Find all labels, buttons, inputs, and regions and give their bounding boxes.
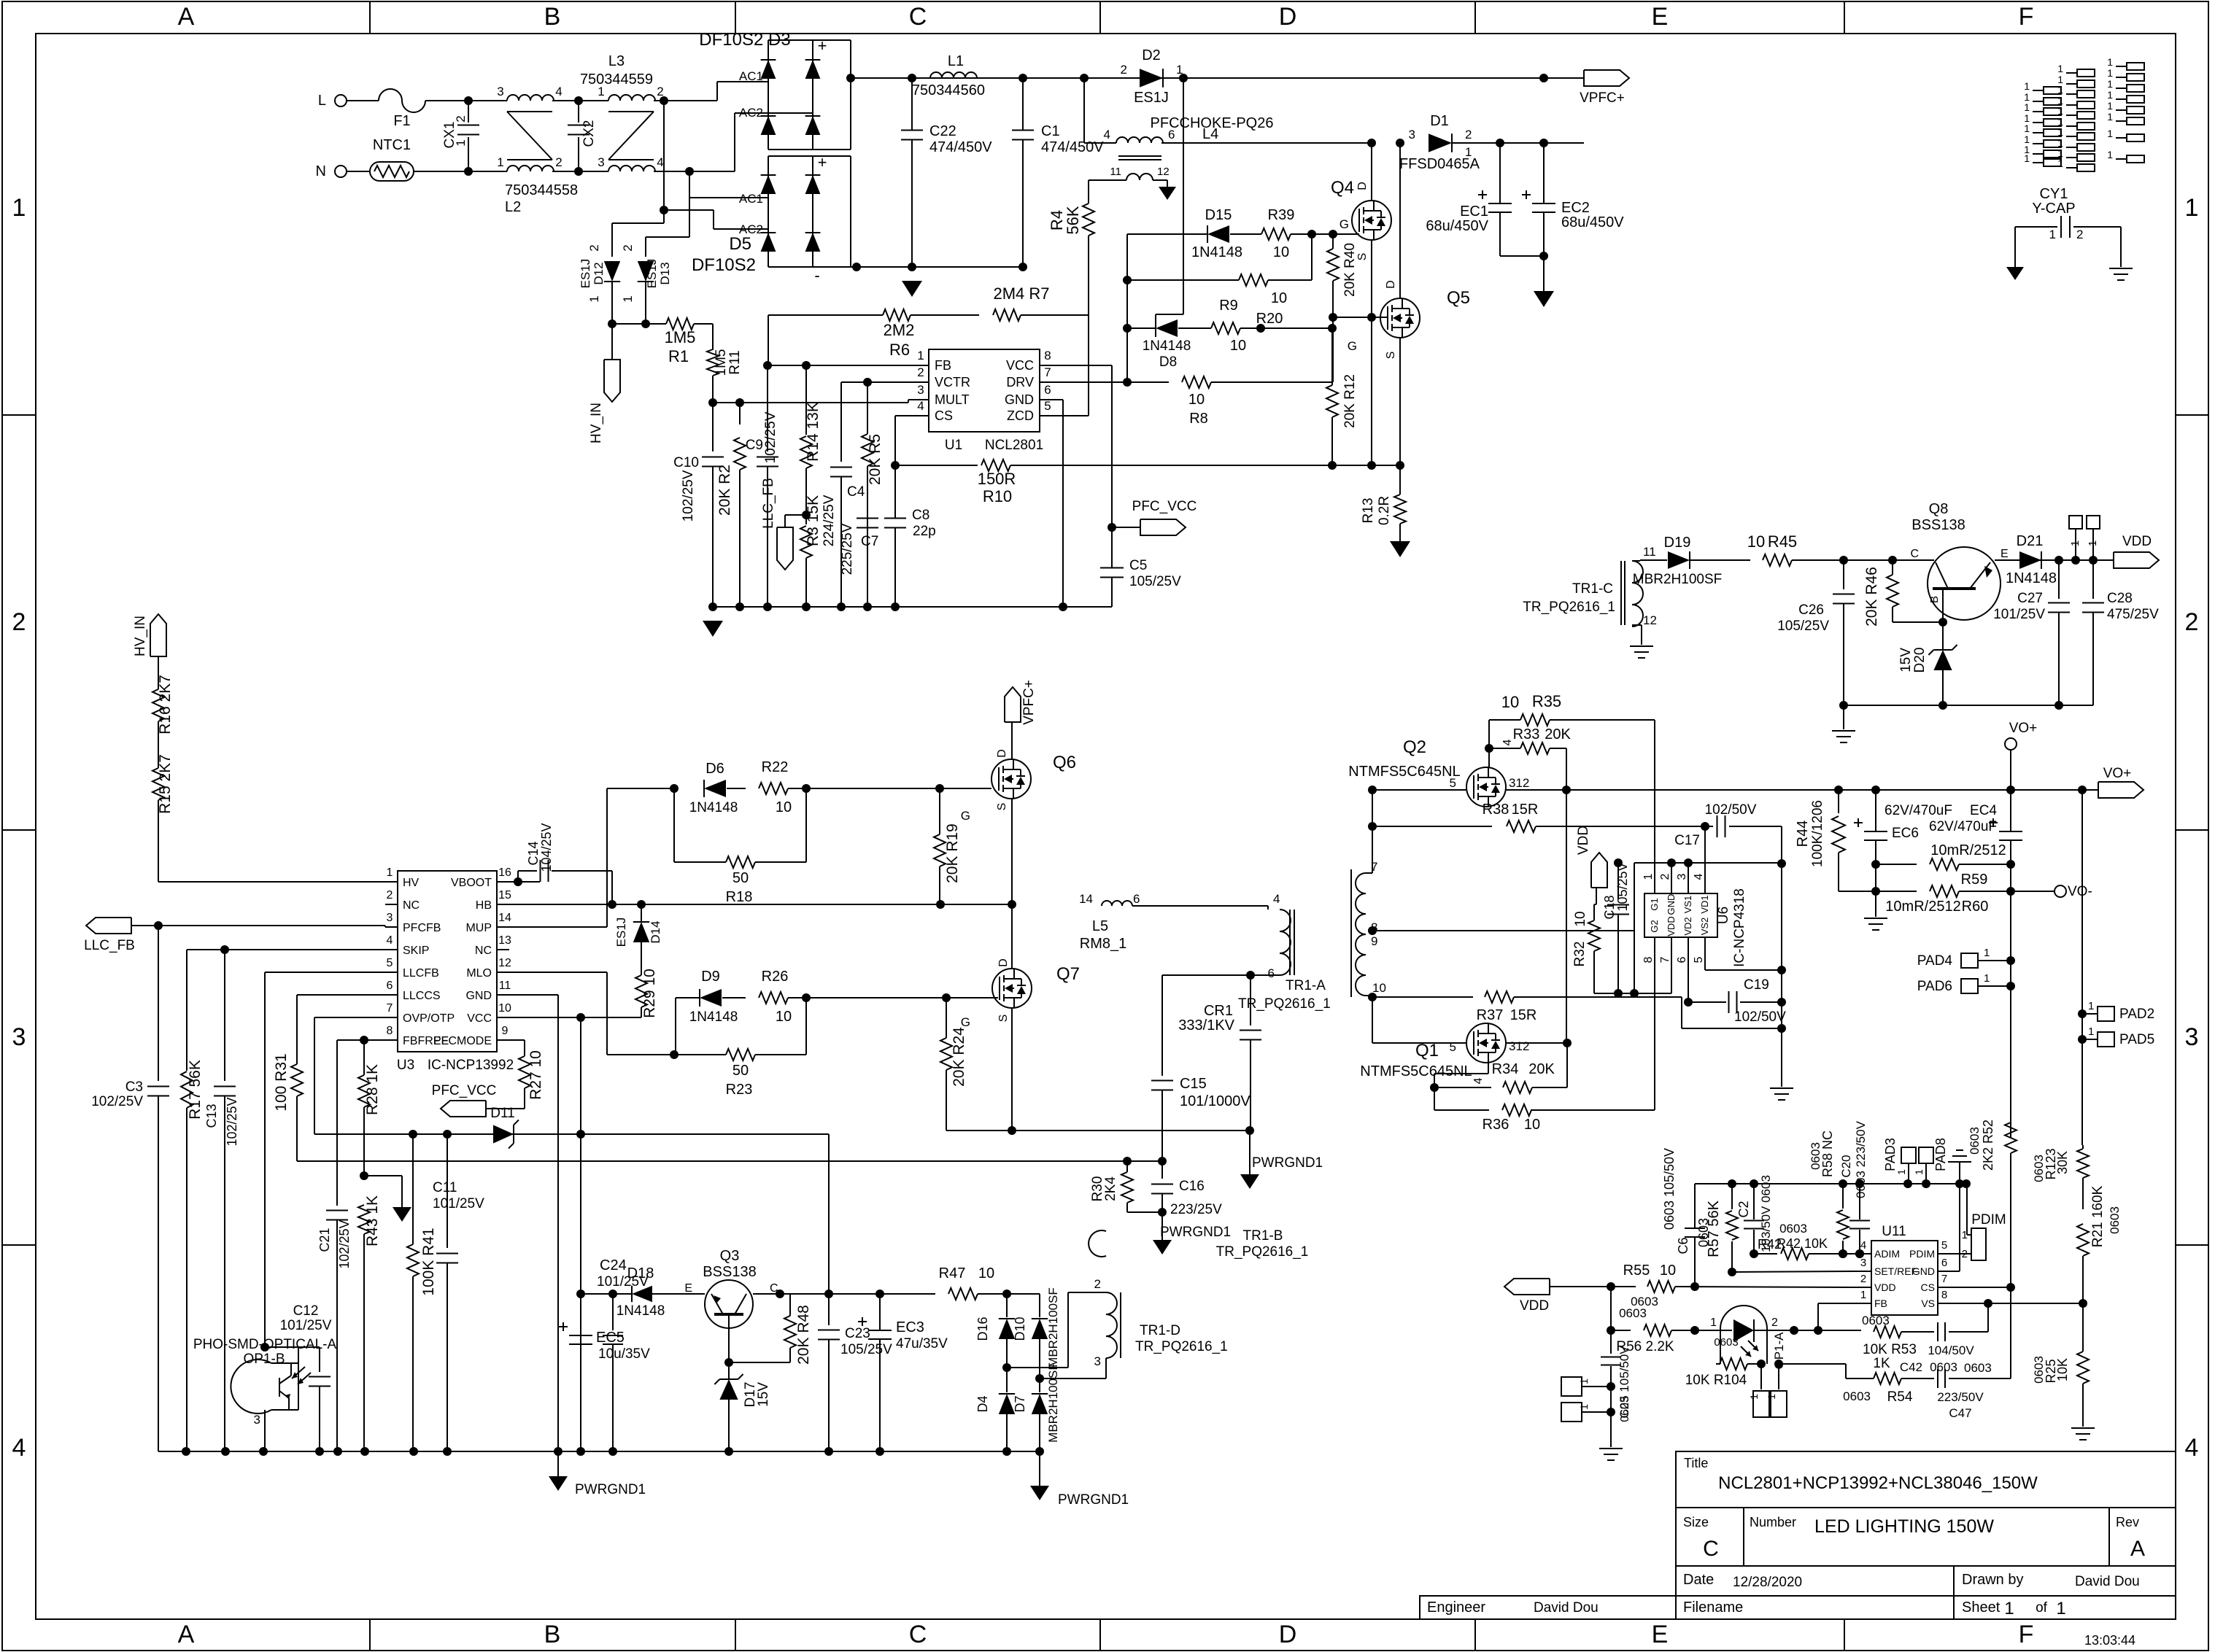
svg-text:B: B xyxy=(544,1621,561,1648)
svg-text:1: 1 xyxy=(1578,1404,1590,1410)
svg-text:CY1: CY1 xyxy=(2040,186,2068,202)
svg-text:R37: R37 xyxy=(1477,1007,1504,1023)
svg-text:1: 1 xyxy=(2057,158,2063,169)
svg-text:R33: R33 xyxy=(1513,726,1540,742)
svg-text:TR1-D: TR1-D xyxy=(1140,1323,1180,1338)
svg-text:2: 2 xyxy=(2185,608,2199,636)
svg-text:EC5: EC5 xyxy=(596,1330,625,1346)
svg-text:15R: 15R xyxy=(1512,802,1539,818)
svg-text:6: 6 xyxy=(1268,966,1275,980)
svg-text:R23: R23 xyxy=(726,1082,753,1098)
svg-text:VO+: VO+ xyxy=(2103,766,2132,781)
svg-text:CS: CS xyxy=(935,408,953,423)
svg-text:56K: 56K xyxy=(1064,206,1082,234)
svg-text:4: 4 xyxy=(1104,128,1110,141)
svg-text:Filename: Filename xyxy=(1683,1599,1743,1616)
svg-text:R57 56K: R57 56K xyxy=(1706,1200,1722,1257)
svg-text:15R: 15R xyxy=(1510,1007,1537,1023)
svg-text:HB: HB xyxy=(476,899,492,912)
svg-text:6: 6 xyxy=(1044,383,1051,397)
svg-text:20K R2: 20K R2 xyxy=(716,465,733,516)
svg-text:4: 4 xyxy=(1693,873,1705,880)
svg-text:1: 1 xyxy=(1984,947,1990,959)
svg-text:1: 1 xyxy=(1578,1378,1590,1384)
svg-text:15V: 15V xyxy=(1898,648,1914,672)
svg-text:2M2: 2M2 xyxy=(884,321,915,339)
svg-text:1: 1 xyxy=(2107,78,2113,90)
svg-text:R42 10K: R42 10K xyxy=(1777,1236,1828,1251)
svg-text:VBOOT: VBOOT xyxy=(451,877,492,889)
svg-text:F1: F1 xyxy=(393,113,410,129)
svg-text:11: 11 xyxy=(1110,166,1121,178)
svg-text:0603: 0603 xyxy=(2108,1206,2122,1234)
svg-text:TR_PQ2616_1: TR_PQ2616_1 xyxy=(1135,1339,1228,1354)
svg-text:R58 NC: R58 NC xyxy=(1820,1131,1835,1177)
svg-text:R14 13K: R14 13K xyxy=(805,402,822,462)
svg-text:3: 3 xyxy=(1860,1257,1866,1269)
svg-text:D19: D19 xyxy=(1664,535,1691,551)
svg-text:G2: G2 xyxy=(1649,920,1660,932)
svg-text:3: 3 xyxy=(2185,1023,2199,1051)
svg-text:C21: C21 xyxy=(317,1228,332,1252)
svg-text:1: 1 xyxy=(2107,100,2113,112)
svg-text:R13: R13 xyxy=(1361,498,1376,524)
svg-text:C23: C23 xyxy=(845,1326,870,1341)
svg-text:PAD4: PAD4 xyxy=(1917,953,1953,969)
svg-text:NC: NC xyxy=(475,945,492,957)
svg-text:ES1J: ES1J xyxy=(579,259,592,289)
svg-text:+: + xyxy=(818,153,827,171)
svg-text:5: 5 xyxy=(1044,399,1051,413)
svg-text:22p: 22p xyxy=(913,524,936,539)
svg-text:A: A xyxy=(2130,1537,2145,1561)
svg-text:C19: C19 xyxy=(1744,977,1769,993)
svg-text:10: 10 xyxy=(1271,290,1287,306)
svg-text:20K R40: 20K R40 xyxy=(1342,243,1358,297)
svg-text:R3 15K: R3 15K xyxy=(805,495,822,546)
svg-text:-: - xyxy=(814,266,819,284)
svg-text:R59: R59 xyxy=(1961,872,1988,888)
svg-text:2: 2 xyxy=(587,244,601,251)
svg-text:A: A xyxy=(178,3,195,31)
svg-text:474/450V: 474/450V xyxy=(1041,139,1104,155)
svg-text:MBR2H100SF: MBR2H100SF xyxy=(1046,1362,1060,1443)
svg-text:3: 3 xyxy=(12,1023,26,1051)
svg-text:7: 7 xyxy=(1044,365,1051,379)
svg-text:10K R53: 10K R53 xyxy=(1863,1342,1917,1357)
svg-text:R47: R47 xyxy=(939,1265,966,1281)
svg-text:105/25V: 105/25V xyxy=(1129,574,1181,589)
svg-text:AC1: AC1 xyxy=(739,192,763,206)
svg-text:R35: R35 xyxy=(1532,692,1561,710)
svg-text:13: 13 xyxy=(498,934,511,947)
svg-text:1: 1 xyxy=(2107,67,2113,79)
svg-text:ES1J: ES1J xyxy=(614,918,628,947)
svg-text:CX2: CX2 xyxy=(581,120,597,147)
svg-text:1: 1 xyxy=(1984,972,1990,985)
svg-text:NCL2801+NCP13992+NCL38046_150W: NCL2801+NCP13992+NCL38046_150W xyxy=(1718,1473,2038,1493)
svg-text:D: D xyxy=(997,958,1010,967)
svg-text:D15: D15 xyxy=(1205,207,1232,223)
svg-text:Q3: Q3 xyxy=(720,1248,740,1264)
svg-text:1: 1 xyxy=(2088,1000,2094,1012)
svg-text:B: B xyxy=(544,3,561,31)
svg-text:10: 10 xyxy=(1230,338,1246,354)
svg-text:D: D xyxy=(996,749,1008,758)
svg-text:VCTR: VCTR xyxy=(935,375,970,389)
svg-text:PAD8: PAD8 xyxy=(1933,1138,1948,1171)
svg-text:HV_IN: HV_IN xyxy=(589,403,604,443)
svg-text:PAD2: PAD2 xyxy=(2119,1007,2154,1022)
svg-text:104/50V: 104/50V xyxy=(1928,1343,1974,1357)
svg-text:101/1000V: 101/1000V xyxy=(1180,1093,1250,1109)
svg-text:D4: D4 xyxy=(975,1395,990,1412)
svg-text:VDD: VDD xyxy=(1520,1298,1549,1314)
svg-text:AC2: AC2 xyxy=(739,106,763,120)
svg-text:C14: C14 xyxy=(526,841,541,865)
svg-text:Date: Date xyxy=(1683,1572,1714,1588)
svg-text:1: 1 xyxy=(2088,1025,2094,1038)
svg-text:VDD: VDD xyxy=(1874,1281,1896,1293)
svg-text:R55: R55 xyxy=(1623,1263,1650,1279)
svg-text:1: 1 xyxy=(2057,84,2063,96)
svg-text:14: 14 xyxy=(498,912,511,924)
svg-text:C10: C10 xyxy=(673,455,699,470)
svg-text:0603: 0603 xyxy=(1779,1222,1807,1236)
svg-text:1K: 1K xyxy=(1873,1356,1890,1371)
svg-text:D14: D14 xyxy=(649,920,662,943)
svg-text:GND: GND xyxy=(465,990,492,1002)
svg-text:SET/REF: SET/REF xyxy=(1874,1265,1917,1277)
svg-text:0603: 0603 xyxy=(1968,1127,1982,1155)
svg-text:333/1KV: 333/1KV xyxy=(1178,1017,1234,1034)
svg-text:101/25V: 101/25V xyxy=(433,1196,484,1211)
svg-text:1: 1 xyxy=(2107,56,2113,68)
svg-text:U3: U3 xyxy=(397,1058,414,1073)
svg-text:D: D xyxy=(1356,182,1369,190)
svg-text:+: + xyxy=(818,36,827,55)
svg-text:MULT: MULT xyxy=(935,392,970,407)
svg-text:4: 4 xyxy=(1273,892,1280,906)
svg-text:1: 1 xyxy=(387,866,393,879)
svg-text:102/25V: 102/25V xyxy=(91,1094,143,1109)
svg-text:0603: 0603 xyxy=(1862,1314,1890,1327)
svg-text:C12: C12 xyxy=(293,1303,319,1319)
svg-text:10mR/2512: 10mR/2512 xyxy=(1930,842,2006,858)
svg-text:VCC: VCC xyxy=(467,1012,492,1025)
svg-text:C27: C27 xyxy=(2017,591,2043,606)
svg-text:G: G xyxy=(1340,217,1349,231)
svg-text:5: 5 xyxy=(1941,1239,1947,1252)
svg-text:LLC_FB: LLC_FB xyxy=(84,938,135,953)
svg-text:D2: D2 xyxy=(1142,47,1161,63)
svg-text:1: 1 xyxy=(2107,128,2113,139)
svg-text:30K: 30K xyxy=(2055,1151,2070,1174)
svg-text:L3: L3 xyxy=(608,53,625,69)
svg-text:CS: CS xyxy=(1921,1281,1935,1293)
svg-text:D20: D20 xyxy=(1912,648,1928,673)
svg-text:20K R12: 20K R12 xyxy=(1342,374,1358,428)
svg-text:C: C xyxy=(1703,1537,1719,1561)
svg-text:Engineer: Engineer xyxy=(1427,1599,1485,1616)
svg-text:FB: FB xyxy=(935,358,951,373)
svg-text:C3: C3 xyxy=(125,1079,143,1095)
svg-text:5: 5 xyxy=(387,957,393,969)
svg-text:D10: D10 xyxy=(1013,1316,1027,1341)
svg-text:David Dou: David Dou xyxy=(1534,1600,1599,1616)
svg-text:102/25V: 102/25V xyxy=(763,411,778,463)
svg-text:C: C xyxy=(909,1621,927,1648)
svg-text:NTC1: NTC1 xyxy=(373,137,411,153)
svg-text:312: 312 xyxy=(1509,776,1529,790)
svg-text:C2: C2 xyxy=(1736,1201,1751,1217)
svg-text:Q7: Q7 xyxy=(1056,964,1080,984)
svg-text:104/25V: 104/25V xyxy=(539,823,554,872)
svg-text:C7: C7 xyxy=(861,534,878,549)
svg-text:TR1-B: TR1-B xyxy=(1243,1228,1283,1244)
svg-text:10: 10 xyxy=(1573,911,1588,926)
svg-text:PWRGND1: PWRGND1 xyxy=(1252,1155,1323,1171)
svg-text:1: 1 xyxy=(2049,228,2056,241)
svg-text:EC3: EC3 xyxy=(896,1319,924,1335)
svg-text:PAD3: PAD3 xyxy=(1883,1138,1898,1171)
svg-text:D13: D13 xyxy=(658,262,672,284)
svg-text:ES1J: ES1J xyxy=(645,259,659,289)
svg-text:BSS138: BSS138 xyxy=(1911,517,1965,533)
svg-text:VS1: VS1 xyxy=(1682,896,1693,914)
svg-text:EC2: EC2 xyxy=(1561,200,1590,216)
svg-text:D12: D12 xyxy=(592,262,606,284)
svg-text:B: B xyxy=(1928,596,1941,603)
svg-text:Q1: Q1 xyxy=(1415,1041,1439,1060)
svg-text:100K/1206: 100K/1206 xyxy=(1810,800,1825,867)
svg-text:NCL2801: NCL2801 xyxy=(985,438,1043,453)
svg-text:10: 10 xyxy=(1660,1263,1676,1279)
svg-text:Number: Number xyxy=(1750,1515,1796,1529)
svg-text:Drawn by: Drawn by xyxy=(1962,1572,2023,1588)
svg-text:102/25V: 102/25V xyxy=(337,1219,352,1268)
svg-text:VD1: VD1 xyxy=(1699,895,1710,913)
svg-text:9: 9 xyxy=(1371,934,1377,948)
svg-text:R60: R60 xyxy=(1962,899,1989,915)
svg-text:5: 5 xyxy=(1450,1040,1456,1054)
svg-text:HV: HV xyxy=(403,877,420,889)
svg-text:FFSD0465A: FFSD0465A xyxy=(1399,156,1480,172)
svg-text:PWRGND1: PWRGND1 xyxy=(575,1482,646,1497)
svg-text:2K2 R52: 2K2 R52 xyxy=(1981,1120,1995,1171)
svg-text:474/450V: 474/450V xyxy=(929,139,992,155)
svg-text:10: 10 xyxy=(498,1002,511,1015)
svg-text:R43 1K: R43 1K xyxy=(364,1195,381,1246)
svg-text:L5: L5 xyxy=(1092,918,1108,934)
svg-text:0603: 0603 xyxy=(1714,1336,1738,1349)
svg-text:PFCFB: PFCFB xyxy=(403,922,441,934)
svg-text:1: 1 xyxy=(2107,111,2113,123)
svg-text:R26: R26 xyxy=(762,969,789,985)
svg-text:1: 1 xyxy=(587,295,601,302)
svg-text:1M5: 1M5 xyxy=(714,349,729,376)
svg-text:20K R48: 20K R48 xyxy=(795,1305,812,1365)
svg-text:E: E xyxy=(684,1282,692,1295)
svg-text:1N4148: 1N4148 xyxy=(1143,338,1191,354)
svg-text:VDD: VDD xyxy=(1576,826,1591,855)
svg-text:G: G xyxy=(961,809,970,823)
svg-text:VS: VS xyxy=(1921,1298,1935,1309)
svg-text:PFCMODE: PFCMODE xyxy=(433,1035,492,1047)
svg-text:R22: R22 xyxy=(762,759,789,775)
svg-text:2: 2 xyxy=(621,244,635,251)
svg-text:PAD5: PAD5 xyxy=(2119,1032,2154,1047)
svg-text:47u/35V: 47u/35V xyxy=(896,1336,948,1352)
svg-text:10K R104: 10K R104 xyxy=(1685,1373,1747,1388)
svg-text:105/25V: 105/25V xyxy=(1777,618,1829,634)
svg-text:OP1-B: OP1-B xyxy=(243,1352,285,1367)
svg-text:F: F xyxy=(2019,3,2034,31)
svg-text:11: 11 xyxy=(1643,545,1656,559)
svg-text:NC: NC xyxy=(403,899,420,912)
svg-text:1: 1 xyxy=(454,139,468,146)
svg-text:6: 6 xyxy=(1133,892,1140,906)
svg-text:10: 10 xyxy=(776,1009,792,1025)
svg-text:L2: L2 xyxy=(505,199,521,215)
svg-text:6: 6 xyxy=(1168,128,1175,141)
svg-text:1N4148: 1N4148 xyxy=(689,1009,738,1025)
svg-text:R54: R54 xyxy=(1887,1389,1913,1405)
svg-text:68u/450V: 68u/450V xyxy=(1561,214,1624,230)
svg-text:R36: R36 xyxy=(1483,1117,1509,1133)
svg-text:1: 1 xyxy=(2069,540,2081,546)
svg-text:Y-CAP: Y-CAP xyxy=(2032,201,2075,217)
svg-text:0603 223/50V: 0603 223/50V xyxy=(1854,1120,1868,1198)
svg-text:20K R46: 20K R46 xyxy=(1863,567,1880,627)
svg-text:D: D xyxy=(1279,1621,1297,1648)
svg-text:2: 2 xyxy=(555,155,562,169)
svg-text:9: 9 xyxy=(502,1025,509,1037)
svg-text:2: 2 xyxy=(1659,873,1671,880)
svg-text:2: 2 xyxy=(387,889,393,901)
svg-text:ES1J: ES1J xyxy=(1134,90,1169,106)
svg-text:16: 16 xyxy=(498,866,511,879)
svg-text:MLO: MLO xyxy=(466,967,492,980)
svg-text:R32: R32 xyxy=(1572,942,1588,967)
svg-text:GND: GND xyxy=(1005,392,1034,407)
svg-text:1: 1 xyxy=(2057,105,2063,117)
svg-text:AC1: AC1 xyxy=(739,69,763,83)
svg-text:R21 160K: R21 160K xyxy=(2090,1185,2106,1247)
svg-text:3: 3 xyxy=(917,383,924,397)
svg-text:2: 2 xyxy=(1121,63,1127,77)
svg-text:0603: 0603 xyxy=(1619,1396,1631,1422)
svg-text:DRV: DRV xyxy=(1006,375,1034,389)
svg-text:10: 10 xyxy=(776,799,792,815)
svg-text:7: 7 xyxy=(1941,1273,1947,1285)
svg-text:D5: D5 xyxy=(729,234,751,254)
svg-text:102/50V: 102/50V xyxy=(1734,1009,1786,1025)
svg-text:10K: 10K xyxy=(2055,1358,2070,1381)
svg-text:5: 5 xyxy=(1450,776,1456,790)
svg-text:750344558: 750344558 xyxy=(505,182,578,198)
svg-text:F: F xyxy=(2019,1621,2034,1648)
svg-text:S: S xyxy=(996,803,1008,811)
svg-text:6: 6 xyxy=(1941,1257,1947,1269)
svg-text:TR_PQ2616_1: TR_PQ2616_1 xyxy=(1523,600,1615,615)
svg-text:1: 1 xyxy=(2024,123,2030,134)
svg-text:312: 312 xyxy=(1509,1039,1529,1053)
svg-text:Rev: Rev xyxy=(2116,1515,2139,1529)
svg-text:C4: C4 xyxy=(847,484,865,500)
svg-text:1: 1 xyxy=(1895,1169,1907,1175)
svg-text:150R: 150R xyxy=(978,470,1016,488)
svg-text:3: 3 xyxy=(497,85,503,98)
svg-text:MBR2H100SF: MBR2H100SF xyxy=(1046,1287,1060,1368)
svg-text:2: 2 xyxy=(454,115,468,122)
svg-text:10: 10 xyxy=(1372,981,1386,995)
svg-text:2K4: 2K4 xyxy=(1103,1176,1118,1201)
svg-text:D7: D7 xyxy=(1013,1395,1027,1412)
svg-text:1: 1 xyxy=(2004,1599,2014,1618)
svg-text:D21: D21 xyxy=(2017,533,2044,549)
svg-text:102/25V: 102/25V xyxy=(681,470,696,521)
svg-text:223/25V: 223/25V xyxy=(1170,1202,1222,1217)
svg-text:R17 56K: R17 56K xyxy=(187,1060,204,1120)
svg-text:R1: R1 xyxy=(668,347,689,365)
svg-text:20K R19: 20K R19 xyxy=(944,823,961,883)
svg-text:ADIM: ADIM xyxy=(1874,1248,1900,1260)
svg-text:S: S xyxy=(1356,253,1369,261)
svg-text:7: 7 xyxy=(1659,956,1671,963)
svg-text:C22: C22 xyxy=(929,123,956,139)
svg-text:0603: 0603 xyxy=(1964,1361,1992,1375)
svg-text:D: D xyxy=(1385,280,1397,289)
svg-text:C6: C6 xyxy=(1676,1237,1690,1254)
svg-text:12: 12 xyxy=(1157,166,1170,178)
svg-text:Q5: Q5 xyxy=(1447,288,1470,308)
svg-text:8: 8 xyxy=(1941,1289,1947,1301)
svg-text:475/25V: 475/25V xyxy=(2107,607,2159,622)
svg-text:EC6: EC6 xyxy=(1892,826,1919,841)
svg-text:3: 3 xyxy=(1676,873,1688,880)
svg-text:NTMFS5C645NL: NTMFS5C645NL xyxy=(1360,1063,1472,1079)
svg-text:1: 1 xyxy=(12,194,26,222)
svg-text:8: 8 xyxy=(1044,349,1051,362)
svg-text:HV_IN: HV_IN xyxy=(133,616,148,656)
svg-text:DF10S2: DF10S2 xyxy=(692,255,756,275)
svg-text:VDD: VDD xyxy=(1666,916,1677,936)
svg-text:LLCCS: LLCCS xyxy=(403,990,441,1002)
svg-text:R39: R39 xyxy=(1268,207,1295,223)
svg-text:12: 12 xyxy=(1643,613,1657,627)
svg-text:VPFC+: VPFC+ xyxy=(1580,90,1625,106)
svg-text:C24: C24 xyxy=(600,1257,627,1273)
svg-text:1: 1 xyxy=(2185,194,2199,222)
svg-text:Q8: Q8 xyxy=(1929,501,1949,517)
svg-text:15: 15 xyxy=(498,889,511,901)
svg-text:David Dou: David Dou xyxy=(2075,1574,2140,1589)
svg-text:6: 6 xyxy=(387,980,393,992)
svg-text:68u/450V: 68u/450V xyxy=(1426,218,1488,234)
svg-text:R8: R8 xyxy=(1189,411,1208,427)
svg-text:R44: R44 xyxy=(1795,821,1811,848)
svg-text:0.2R: 0.2R xyxy=(1377,496,1392,525)
svg-text:14: 14 xyxy=(1079,892,1093,906)
svg-text:D9: D9 xyxy=(701,969,720,985)
svg-text:1: 1 xyxy=(2024,80,2030,92)
svg-text:11: 11 xyxy=(499,980,511,992)
svg-text:PWRGND1: PWRGND1 xyxy=(1160,1225,1231,1240)
svg-text:224/25V: 224/25V xyxy=(822,495,837,546)
svg-text:13:03:44: 13:03:44 xyxy=(2084,1633,2135,1648)
svg-text:1: 1 xyxy=(2057,63,2063,74)
